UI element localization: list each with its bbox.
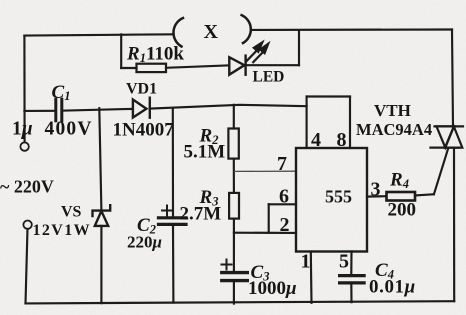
svg-text:LED: LED — [253, 69, 285, 86]
resistor R3 — [229, 193, 239, 219]
wire pin6 horizontal — [269, 203, 296, 205]
capacitor C4 — [340, 276, 365, 283]
lamp X left arc — [173, 18, 183, 47]
wire triac gate diagonal — [434, 149, 448, 194]
resistor R1 — [137, 64, 167, 72]
triac VTH — [431, 126, 464, 147]
wire pin1 drop — [310, 252, 313, 303]
LED VL — [229, 56, 245, 75]
wire riser to top rail — [298, 31, 300, 65]
svg-text:200: 200 — [388, 200, 417, 221]
wire left vertical — [23, 36, 25, 142]
resistor R2 — [228, 129, 238, 159]
wire R3 to C3 — [233, 219, 235, 271]
resistor R4 — [387, 192, 416, 201]
wire C2 branch lower — [172, 226, 175, 303]
wire pin4-pin8 loop top — [307, 95, 350, 97]
svg-text:5: 5 — [339, 251, 349, 273]
svg-text:R1110k: R1110k — [126, 44, 184, 66]
wire 2nd rail: left to C1 — [24, 110, 55, 112]
wire bottom rail — [26, 301, 455, 303]
wire VS branch upper — [99, 108, 101, 210]
svg-text:1N4007: 1N4007 — [113, 120, 175, 141]
wire R2 to R3 — [233, 159, 235, 193]
wire VD1 to pin4 riser — [150, 105, 307, 109]
svg-text:3: 3 — [371, 179, 381, 201]
wire pin4 riser — [306, 97, 308, 148]
C3 plus sign — [222, 260, 232, 270]
capacitor C1 — [56, 99, 62, 121]
svg-text:VS: VS — [61, 204, 82, 221]
capacitor C2 — [159, 218, 187, 225]
svg-text:5.1M: 5.1M — [184, 142, 226, 163]
wire to R1 — [121, 67, 136, 69]
wire C1 to VD1 — [62, 109, 133, 111]
wire pin3 — [367, 195, 387, 198]
svg-text:2: 2 — [280, 214, 290, 236]
wire LED cathode to riser — [246, 64, 299, 66]
C2 plus sign — [162, 206, 172, 216]
svg-text:~ 220V: ~ 220V — [0, 177, 54, 197]
wire C3 lower — [233, 281, 235, 304]
terminal top circle — [20, 142, 28, 150]
LED arrows — [247, 42, 268, 62]
wire pin2 — [234, 232, 296, 234]
wire VS branch lower — [100, 226, 102, 303]
svg-text:6: 6 — [279, 186, 289, 208]
wire top rail right segment — [251, 28, 452, 31]
wire below bottom terminal — [26, 229, 28, 304]
wire R2 branch drop — [233, 105, 235, 129]
wire triac lower — [453, 148, 455, 302]
wire right vertical top to triac — [452, 30, 453, 127]
wire top rail left segment — [24, 34, 173, 35]
op-amp U1 555 box — [296, 148, 367, 252]
svg-text:8: 8 — [337, 129, 347, 151]
svg-text:1000μ: 1000μ — [248, 278, 297, 299]
svg-text:X: X — [204, 21, 219, 43]
wire C2 branch upper — [172, 110, 174, 217]
wire pin6 to pin2 vertical — [268, 204, 270, 233]
wire C4 lower — [350, 283, 352, 302]
svg-text:12V1W: 12V1W — [33, 222, 92, 239]
svg-text:MAC94A4: MAC94A4 — [356, 120, 432, 139]
wire pin5 drop — [350, 252, 352, 274]
svg-text:VTH: VTH — [374, 101, 411, 120]
zener diode VS — [93, 205, 111, 226]
svg-text:4: 4 — [311, 129, 321, 151]
wire pin7 — [235, 170, 297, 172]
terminal bottom circle — [23, 221, 31, 229]
svg-text:2.7M: 2.7M — [180, 204, 222, 225]
svg-text:0.01μ: 0.01μ — [369, 277, 416, 298]
wire pin8 drop — [349, 97, 351, 149]
svg-text:7: 7 — [277, 153, 287, 175]
capacitor C3 — [222, 273, 248, 281]
svg-text:555: 555 — [325, 187, 352, 207]
lamp X right arc — [242, 15, 251, 43]
svg-text:1μ400V: 1μ400V — [12, 119, 93, 140]
svg-text:1: 1 — [301, 251, 311, 273]
svg-text:220μ: 220μ — [127, 233, 162, 252]
wire R4 to gate — [415, 194, 434, 195]
wire R1 branch drop — [120, 34, 122, 68]
svg-text:VD1: VD1 — [126, 81, 157, 98]
diode VD1 — [133, 98, 150, 118]
wire R1 to LED — [166, 65, 229, 67]
